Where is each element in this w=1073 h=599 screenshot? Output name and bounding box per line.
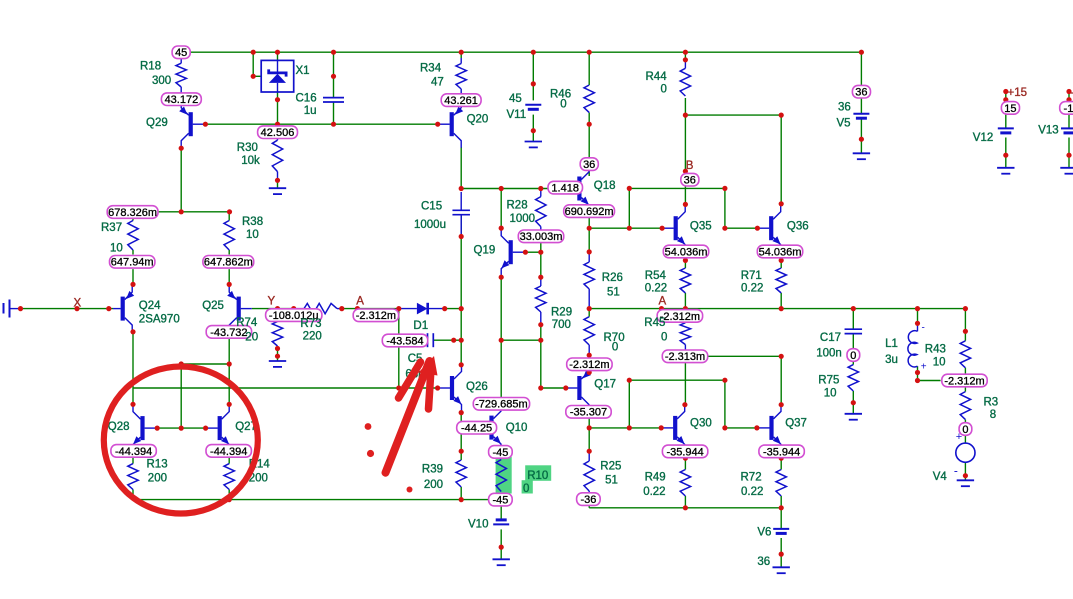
svg-text:-2.313m: -2.313m [665,351,705,363]
svg-text:47: 47 [431,77,444,89]
node box -36 [577,493,601,506]
wire R74 top [277,309,279,322]
junction (461,451) [459,449,464,454]
svg-text:200: 200 [148,473,167,485]
resistor R71 [776,268,786,293]
wire Q24 collector down [132,332,134,388]
junction (253,76) [251,74,256,79]
junction (629,380) [627,378,632,383]
wire R34 top lead [460,52,462,58]
svg-text:V12: V12 [973,132,993,144]
wire vert N lower [724,380,726,428]
wire V4 bottom [964,462,966,475]
wire B net top rail [685,114,781,116]
svg-text:0.22: 0.22 [645,283,667,295]
junction (1006,92) [1003,89,1008,94]
svg-text:-2.312m: -2.312m [569,359,609,371]
junction (181,364) [179,361,184,366]
junction (1069,92) [1066,89,1071,94]
wire C15 bottom long vertical [460,215,462,366]
svg-text:Q30: Q30 [690,418,712,430]
junction (278,52) [275,50,280,55]
transistor Q25 [227,285,239,332]
ground C17 [845,413,862,415]
node box -44.25 [457,421,497,434]
wire R13 top lead [132,458,134,464]
wire Q26 emitter down [460,413,462,452]
wire R43 bottom [964,368,966,374]
wire D1 cathode to column [445,308,462,310]
transistor Q29 [179,101,191,148]
wire Q20 emitter down [460,147,462,189]
transistor Q10 [492,404,502,451]
junction (334,124) [331,122,336,127]
wire Q35 base rail [589,227,661,229]
svg-text:0: 0 [661,84,667,96]
svg-text:54.036m: 54.036m [759,246,802,258]
junction (661,428) [659,425,664,430]
wire R54 bottom [684,293,686,309]
wire R39 bottom [460,487,462,500]
resistor R14 [224,464,234,490]
wire V11 bottom [532,115,534,131]
node box -43.584 [382,334,427,347]
svg-text:0.22: 0.22 [741,486,763,498]
transistor Q24 [123,285,135,332]
junction (629,428) [627,425,632,430]
svg-text:647.862m: 647.862m [204,257,253,269]
node box -44.394 L [111,445,156,458]
wire X1 left stub horizontal [253,75,261,77]
node box 690.692m [564,205,615,218]
svg-text:D1: D1 [413,320,428,332]
junction (685,458) [683,456,688,461]
svg-text:V4: V4 [933,471,948,483]
junction (781,260) [779,258,784,263]
wire Q19 collector up [500,189,502,229]
svg-text:700: 700 [552,319,571,331]
junction (133,404) [130,402,135,407]
svg-text:8: 8 [990,409,996,421]
junction (438,388) [435,385,440,390]
resistor R73 [304,303,337,313]
wire C16 bottom [333,102,335,124]
junction (685,309) [683,306,688,311]
junction (205,124) [203,122,208,127]
svg-text:-729.685m: -729.685m [475,399,528,411]
junction (541,252) [538,250,543,255]
svg-text:R34: R34 [420,63,442,75]
junction (294,309) [291,306,296,311]
junction (781,356) [779,354,784,359]
junction (965,309) [963,306,968,311]
wire VAS base rail [133,387,438,389]
wire V11 top [532,52,534,100]
wire V5 gnd stub [860,139,862,153]
junction (461,500) [459,497,464,502]
junction (685,115) [683,113,688,118]
svg-text:1.418: 1.418 [551,183,579,195]
svg-text:Q25: Q25 [202,300,224,312]
svg-text:Q19: Q19 [474,245,496,257]
wire to Q28 collector [132,388,134,404]
zener X1 [261,60,294,92]
wire top +45 rail [191,51,862,53]
resistor R29 [536,286,546,312]
node box -108.012u [266,309,322,322]
svg-text:V10: V10 [468,519,488,531]
wire V12 mid [1005,114,1007,128]
svg-text:1000u: 1000u [414,219,446,231]
capacitor C16 [323,97,344,99]
wire A node segment [342,308,399,310]
junction (589,309) [587,306,592,311]
node box 43.172 [161,93,201,106]
resistor R13 [128,464,138,490]
resistor R46 [584,85,594,113]
resistor R72 [776,470,786,497]
wire V6 bottom [780,538,782,554]
wire down to Q10 collector [500,340,502,404]
node box 1.418 [548,181,583,194]
wire R71 bottom [780,293,782,309]
wire Q17 collector down [588,419,590,428]
junction (357,309) [355,306,360,311]
wire R30 gnd stub [277,180,279,188]
svg-text:R54: R54 [645,270,667,282]
svg-text:100n: 100n [816,348,842,360]
transistor Q36 [771,205,781,252]
junction (399,388) [396,385,401,390]
ground V10 [493,558,510,560]
junction (781,309) [779,306,784,311]
wire R38 top lead [228,212,230,221]
wire upper base link rail [629,379,725,381]
svg-text:-15: -15 [1064,103,1073,115]
junction (589,372) [587,370,592,375]
node box -45 upper [489,446,513,459]
resistor R38 [224,221,234,251]
wire R44 bottom [684,98,686,115]
wire Q19 emitter down [500,277,502,340]
junction (533,131) [531,128,536,133]
wire R74 bottom [277,346,279,356]
junction (685,508) [683,505,688,510]
wire L1 bottom [917,366,919,380]
svg-text:A: A [659,295,667,307]
junction (589,451) [587,449,592,454]
svg-text:Q20: Q20 [467,114,489,126]
junction (685,171) [683,169,688,174]
wire Q37 collector vertical [780,356,782,404]
capacitor C15 [452,209,470,211]
transistor Q30 [675,404,685,451]
resistor R10 [496,460,506,492]
wire down to Q17 base [540,340,542,388]
junction (229,284) [227,282,232,287]
wire C5 left [399,339,427,341]
svg-text:-35.944: -35.944 [666,446,703,458]
resistor R49 [680,470,690,497]
wire C5 right [433,339,461,341]
wire Q10 base [461,427,489,429]
wire R49 bottom [684,496,686,508]
junction (206,428) [203,426,208,431]
svg-text:Y: Y [268,296,276,308]
wire R74 gnd stub [277,356,279,361]
junction (229,404) [227,402,232,407]
wire V5 drop [860,52,862,85]
resistor R28 [536,197,546,227]
svg-text:R3: R3 [984,397,999,409]
wire Q24 emitter up [132,269,134,284]
wire V12 top [1005,92,1007,103]
junction (725,228) [722,226,727,231]
node box 43.261 [441,94,481,107]
wire X input [21,308,114,310]
wire mirror bases [157,427,205,429]
wire R70-box [588,355,590,357]
wire Q36 collector vertical [780,115,782,204]
svg-text:X: X [74,298,82,310]
junction (1006,100) [1003,97,1008,102]
junction (757,428) [754,425,759,430]
svg-text:36: 36 [684,175,696,187]
node box -35.307 [566,406,611,419]
source V4 [956,443,975,462]
svg-text:-: - [922,323,925,334]
junction (278,180) [275,178,280,183]
junction (541,388) [538,385,543,390]
junction (334,76) [331,74,336,79]
svg-text:33.003m: 33.003m [520,231,563,243]
svg-text:L1: L1 [885,338,898,350]
junction (109,309) [106,306,111,311]
svg-text:R44: R44 [646,71,668,83]
wire vert N bridge [724,188,726,228]
svg-text:R38: R38 [242,216,263,228]
wire V6 gnd stub [780,554,782,567]
wire V5 lower [860,119,862,140]
resistor R54 [680,268,690,293]
svg-text:36: 36 [855,87,867,99]
svg-text:-35.307: -35.307 [570,407,607,419]
resistor R37 [128,221,138,251]
wire Q25 collector to Q27 [228,332,230,404]
svg-text:R71: R71 [741,270,762,282]
junction (278,100) [275,97,280,102]
svg-text:36: 36 [838,102,851,114]
wire R46 top [588,52,590,85]
wire V10 bottom [500,529,502,547]
wire R14 top lead [228,458,230,464]
wire R3 to 0 box [964,420,966,424]
svg-text:2SA970: 2SA970 [139,314,180,326]
svg-text:-2.312m: -2.312m [944,375,984,387]
resistor R45 [680,323,690,345]
wire R39 top lead [460,451,462,460]
resistor R43 [960,341,970,368]
junction (461,413) [459,410,464,415]
wire R44 top [684,52,686,60]
junction (77,309) [74,306,79,311]
svg-text:0: 0 [850,350,856,362]
svg-text:54.036m: 54.036m [665,246,708,258]
svg-text:Q26: Q26 [466,381,488,393]
wire to Q17 base dot [541,387,566,389]
svg-text:R49: R49 [645,472,666,484]
junction (589,124) [587,122,592,127]
svg-text:10: 10 [110,243,123,255]
transistor Q35 [676,205,686,252]
junction (133,332) [130,329,135,334]
node box 54.036m L [663,245,708,258]
svg-text:3u: 3u [885,354,898,366]
annotation red arrow [386,361,430,473]
wire Q18 emitter to base rail [588,218,590,228]
junction (438,124) [435,122,440,127]
junction (781,554) [779,552,784,557]
junction (965,331) [963,329,968,334]
battery V13 [1061,127,1073,129]
wire R3 top [964,387,966,392]
battery V6 [773,528,789,530]
resistor R74 [272,321,282,346]
junction (342,309) [339,306,344,311]
svg-text:R25: R25 [600,461,621,473]
wire mirror diode link vert [180,364,182,428]
junction (461,52) [459,50,464,55]
wire R28-R29 junction col [540,242,542,278]
node box 647.862m [203,256,254,269]
junction (541,188) [538,186,543,191]
svg-text:10k: 10k [241,155,260,167]
diode D1 [399,308,417,310]
wire Q29-Q20 base rail 42.506 [205,123,437,125]
junction (589,428) [587,425,592,430]
junction (662,228) [660,226,665,231]
wire output rail [589,308,965,310]
node box 15 V12 [1001,102,1019,115]
svg-text:-: - [954,464,958,478]
resistor R39 [456,460,466,487]
capacitor C5 [427,333,429,347]
wire V13 gnd stub [1068,155,1070,168]
node box 36 Q18 [580,158,598,171]
junction (501,340) [499,338,504,343]
junction (229,364) [227,361,232,366]
junction (629,188) [627,186,632,191]
wire R37 top lead [132,214,134,221]
svg-text:647.94m: 647.94m [111,257,154,269]
ground R74 [269,360,286,362]
junction (853,309) [851,306,856,311]
wire R38 bottom lead [228,250,230,255]
wire -36 rail [589,507,781,509]
wire V4 gnd stub [964,476,966,481]
svg-text:R28: R28 [507,200,528,212]
wire C17 top [852,309,854,330]
node box -729.685m [473,398,529,411]
wire R49 top lead [684,458,686,469]
wire R72 bottom [780,496,782,508]
wire box-Q17 [588,371,590,372]
junction (461,340) [459,338,464,343]
resistor R30 [272,140,282,171]
node box -2.312m out [942,374,987,387]
node box 36 B [681,173,699,186]
wire V11 gnd stub [532,131,534,142]
wire R29 bottom [540,325,542,341]
junction (501,188) [499,186,504,191]
wire R45 bottom to Q30 collector [684,363,686,405]
svg-text:R75: R75 [818,375,839,387]
svg-text:+: + [921,362,927,373]
wire Q29 collector down [180,148,182,212]
transistor Q26 [452,365,462,412]
wire Q25 emitter up [228,269,230,284]
ground V6 [773,566,790,568]
svg-text:Q35: Q35 [690,221,712,233]
junction (133,284) [130,282,135,287]
wire R46 bottom to Q18 collector [588,113,590,158]
annotation red dots [365,423,372,430]
node box -45 lower [489,493,513,506]
node box 647.94m [110,256,155,269]
wire C17 bottom [852,334,854,349]
wire -2.313m to Q37 collector link [708,355,781,357]
junction (725,188) [722,186,727,191]
ground V5 [853,152,870,154]
junction (461,188) [459,186,464,191]
junction (781,458) [779,456,784,461]
junction (501,228) [499,226,504,231]
battery V10 [496,518,507,521]
wire 36 box to Q18 [588,170,590,176]
svg-text:1u: 1u [304,105,317,117]
wire R72 top lead [780,458,782,469]
node box -35.944 L [662,445,707,458]
junction (20,309) [18,306,23,311]
junction (918,380) [915,378,920,383]
junction (685,260) [683,258,688,263]
junction (781,204) [779,201,784,206]
node box -2.312m Q17 [567,358,612,371]
svg-text:Q10: Q10 [506,422,528,434]
junction (461,365) [459,362,464,367]
ground V12 [997,167,1014,169]
node box -35.944 R [759,445,804,458]
junction (541,340) [538,338,543,343]
svg-text:Q28: Q28 [108,421,130,433]
svg-text:B: B [686,160,694,172]
wire R13 bottom [132,490,134,500]
node box 0 V4 [959,423,972,436]
wire Q20emitter-Q18base rail 1.418 [461,188,578,190]
svg-text:-45: -45 [492,447,508,459]
svg-text:Q29: Q29 [146,117,168,129]
junction (501,547) [499,545,504,550]
svg-text:1000: 1000 [510,213,536,225]
junction (662,309) [659,306,664,311]
ground R30 [269,187,286,189]
svg-text:51: 51 [605,475,618,487]
svg-text:R37: R37 [101,222,122,234]
svg-text:Q17: Q17 [594,379,616,391]
svg-text:R13: R13 [147,459,168,471]
wire R43 top [964,309,966,341]
junction (157,428) [155,426,160,431]
